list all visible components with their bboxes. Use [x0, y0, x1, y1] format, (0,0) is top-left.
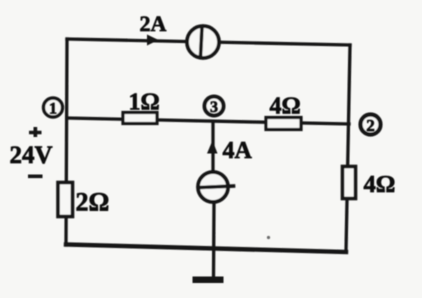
svg-text:2A: 2A — [140, 11, 167, 36]
label minus — [28, 175, 43, 179]
node 3 — [205, 97, 224, 116]
wire bottom (ground rail) — [66, 245, 346, 253]
svg-text:4A: 4A — [223, 138, 253, 164]
wire center vertical (node3 to 4A source to ground) — [213, 122, 214, 279]
node 1 — [44, 98, 63, 117]
svg-text:24V: 24V — [10, 142, 53, 169]
wire top (node1 to node2 via 2A source) — [67, 39, 350, 45]
resistor R1 1ohm — [123, 113, 157, 124]
stray ink dot — [267, 236, 270, 239]
wire middle (node1-node3-node2) — [67, 118, 349, 124]
svg-text:3: 3 — [210, 99, 218, 116]
current source U2 4A — [198, 172, 228, 202]
svg-text:4Ω: 4Ω — [270, 94, 301, 120]
wire left (node1 branch) — [66, 39, 67, 245]
svg-text:1: 1 — [49, 101, 57, 118]
svg-text:2Ω: 2Ω — [76, 188, 110, 217]
arrow 4A current direction — [207, 141, 218, 154]
label plus — [29, 127, 42, 137]
svg-text:2: 2 — [366, 116, 375, 135]
resistor R4 4ohm right — [343, 167, 356, 199]
node 2 — [361, 115, 381, 135]
current source U1 2A — [187, 26, 219, 58]
resistor R3 2ohm — [58, 183, 73, 217]
resistor R2 4ohm middle — [266, 118, 301, 130]
arrow 2A current direction — [147, 35, 159, 46]
svg-text:1Ω: 1Ω — [129, 90, 160, 116]
svg-text:4Ω: 4Ω — [364, 171, 396, 198]
ground — [193, 277, 224, 284]
wire right (node2 branch) — [346, 45, 350, 252]
